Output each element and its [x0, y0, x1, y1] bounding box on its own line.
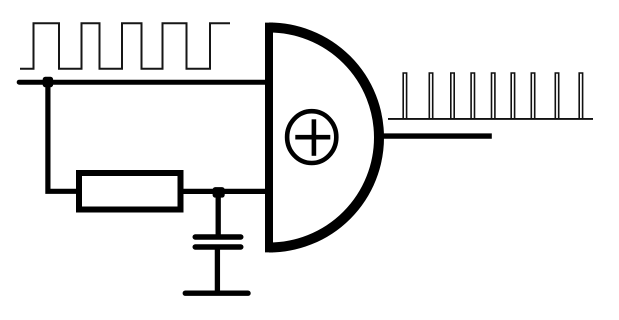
output pulse waveform: spike 1: [403, 73, 406, 119]
wire: junction down and right to resistor: [48, 82, 78, 191]
wire: input net to gate pin 1: [19, 80, 269, 85]
node: RC junction: [213, 187, 225, 198]
output pulse waveform: spike 4: [471, 73, 474, 119]
input square wave: [20, 23, 230, 69]
ground: [185, 291, 248, 296]
XOR symbol: plus vertical bar: [312, 119, 317, 156]
output pulse waveform: spike 3: [451, 73, 454, 119]
XOR symbol: plus horizontal bar: [295, 135, 330, 140]
resistor R1: [79, 173, 181, 210]
output pulse waveform: spike 9: [579, 73, 582, 119]
XOR symbol: circle: [287, 111, 336, 163]
capacitor C1 (top plate): [195, 234, 241, 239]
wire: gate output: [379, 133, 492, 138]
output pulse waveform: spike 6: [511, 73, 514, 119]
XOR gate U1: flat input edge: [265, 23, 273, 253]
node: input junction: [43, 77, 53, 88]
output pulse waveform: spike 2: [429, 73, 432, 119]
output pulse waveform: spike 5: [492, 73, 495, 119]
capacitor C1 (bottom plate): [195, 244, 241, 249]
XOR gate U1: half-disc body arc: [269, 28, 379, 248]
output pulse waveform: spike 7: [531, 73, 534, 119]
wire: resistor to gate pin 2: [182, 189, 269, 194]
wire: RC junction to capacitor: [216, 191, 221, 238]
output pulse waveform: spike 8: [555, 73, 558, 119]
wire: capacitor to ground: [215, 247, 220, 293]
output pulse waveform: baseline: [388, 118, 593, 120]
